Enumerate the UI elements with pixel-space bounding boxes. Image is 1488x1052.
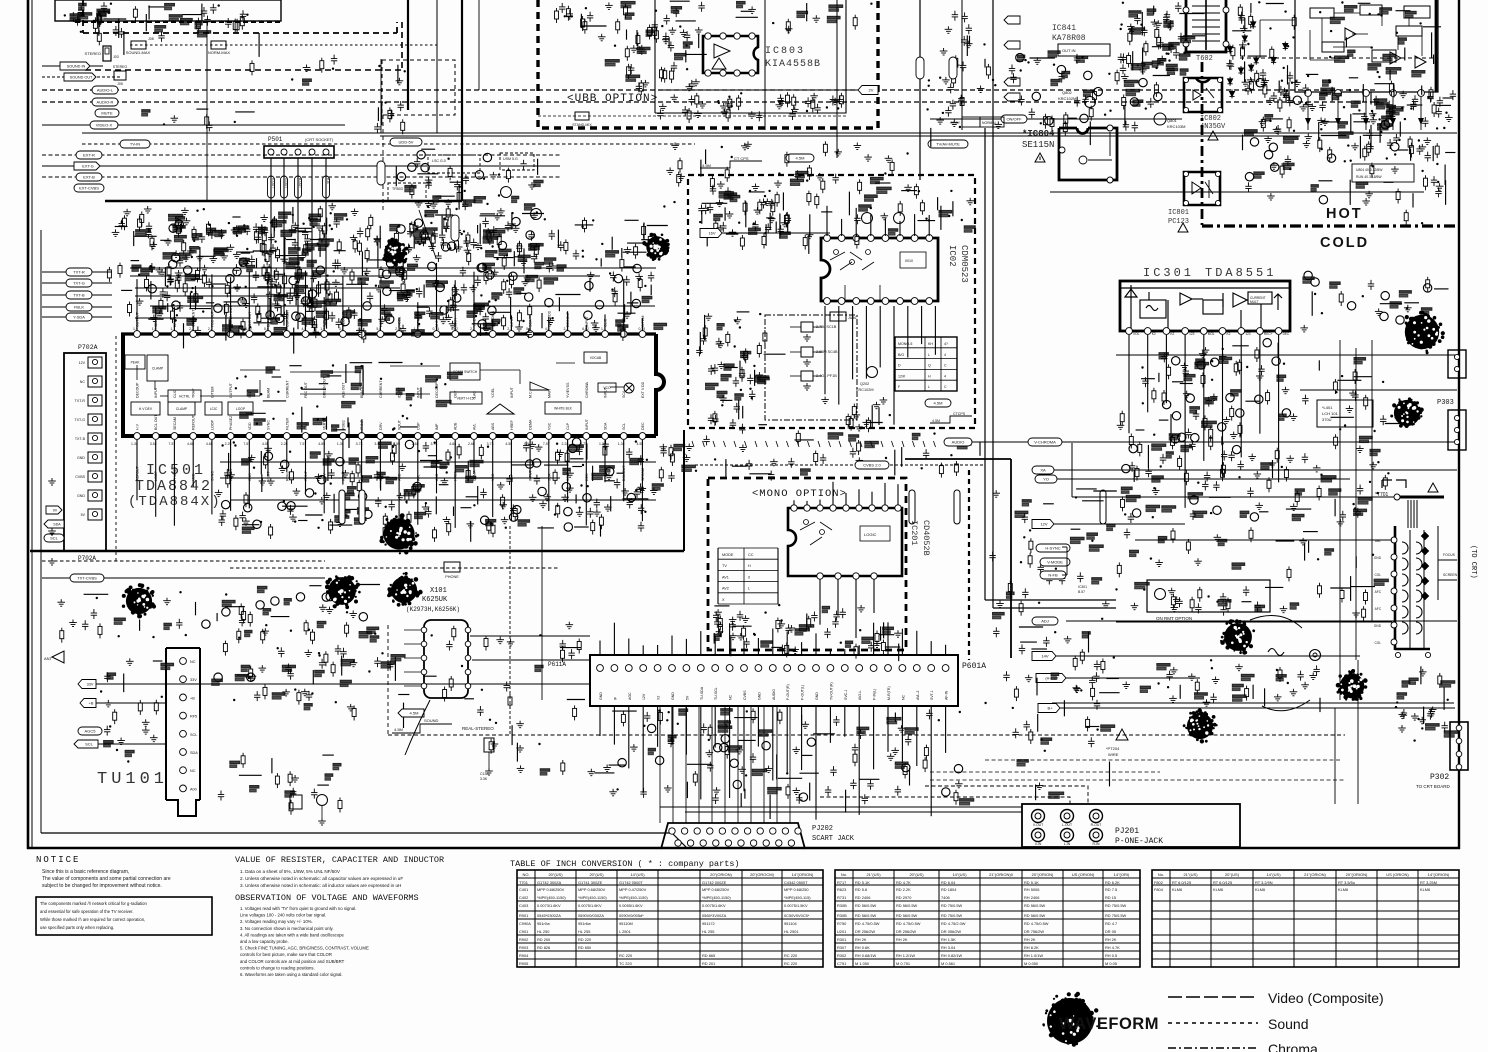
P302 pin 2: [1456, 738, 1462, 744]
svg-text:0: 0: [748, 575, 750, 579]
svg-text:DECOUP: DECOUP: [136, 382, 140, 398]
svg-text:RD 7.5: RD 7.5: [1105, 887, 1117, 892]
tag AUDIO-R: [92, 98, 118, 106]
svg-text:2V: 2V: [869, 88, 874, 93]
svg-text:RD 4.75/2.0W: RD 4.75/2.0W: [941, 921, 966, 926]
svg-text:R901: R901: [519, 913, 528, 918]
svg-text:14V: 14V: [1041, 654, 1048, 659]
svg-text:2. Voltages reading may vary: 2. Voltages reading may vary +/- 10%.: [240, 919, 313, 924]
svg-text:*L401: *L401: [1322, 405, 1333, 410]
svg-text:2.75L SC1B: 2.75L SC1B: [816, 325, 837, 329]
power block wires: [1260, 10, 1422, 60]
transistor Q204: [894, 213, 905, 224]
svg-text:RH 0.5: RH 0.5: [1105, 953, 1117, 958]
IC301 pin 7: [1238, 328, 1245, 335]
svg-text:CDM0523: CDM0523: [959, 245, 969, 283]
curved leader lines near blobs: [1250, 616, 1302, 629]
svg-text:DR 256/2W: DR 256/2W: [855, 929, 875, 934]
svg-text:1. Voltages read with 'TV' fr: 1. Voltages read with 'TV' from quiet to…: [240, 906, 356, 911]
electrolytic pills below IC501: [339, 490, 345, 524]
HOT COLD isolation barrier horizontal: [1202, 224, 1459, 227]
svg-text:AGC5: AGC5: [85, 729, 97, 734]
svg-text:SCL: SCL: [622, 423, 626, 430]
svg-text:G1742 000ZE: G1742 000ZE: [702, 880, 727, 885]
IC804 internals: [1079, 156, 1087, 164]
svg-text:MOL: MOL: [1208, 332, 1215, 336]
svg-text:0.0075/1.6KV: 0.0075/1.6KV: [578, 903, 602, 908]
warning triangle IC802: [1208, 131, 1218, 140]
IC501 bottom pin 16: [414, 433, 421, 440]
svg-text:US (ORION): US (ORION): [1386, 872, 1409, 877]
chroma box extra upper parts: [702, 190, 975, 249]
IC501 top pin 28: [639, 331, 646, 338]
IC501 bottom pin 27: [620, 433, 627, 440]
inner margin diagonal: [672, 833, 686, 847]
svg-text:Q: Q: [928, 364, 931, 368]
svg-text:14"(ORION): 14"(ORION): [1428, 872, 1450, 877]
long vertical wire x837: [836, 0, 838, 158]
parts right of mono option: [989, 480, 1116, 665]
audio bus L dashed wire: [42, 89, 1378, 91]
svg-text:DR 256/2W: DR 256/2W: [896, 929, 916, 934]
svg-text:C401: C401: [519, 887, 528, 892]
svg-text:US (ORION): US (ORION): [1072, 872, 1095, 877]
P702A pin 8 GND: [88, 490, 102, 501]
svg-text:12V: 12V: [642, 693, 646, 700]
P601A pin up stubs: [600, 622, 946, 655]
outer dashed option box: [83, 32, 397, 34]
svg-text:0010: 0010: [905, 259, 913, 263]
IC301 pin 9: [1275, 328, 1282, 335]
wire FBLK: [42, 306, 112, 308]
svg-text:(K2973H,K6256K): (K2973H,K6256K): [406, 606, 460, 613]
IC201 top pin stubs: [794, 482, 898, 505]
svg-text:AGC: AGC: [628, 692, 632, 700]
svg-text:*T701: *T701: [1375, 492, 1389, 498]
vertical wire from top-left box: [206, 22, 208, 200]
IC501 internal symbols: [235, 363, 462, 449]
parts between chroma and mono boxes: [659, 430, 980, 482]
svg-text:GND: GND: [1374, 624, 1382, 628]
ground symbol: [48, 528, 56, 535]
svg-text:20"(ORION): 20"(ORION): [1032, 872, 1054, 877]
svg-text:R750: R750: [837, 921, 847, 926]
warning triangle IC801: [1178, 223, 1188, 232]
IC301 pin 2: [1144, 328, 1151, 335]
svg-text:RD 6.04: RD 6.04: [941, 880, 956, 885]
svg-text:*MPE(450-1150): *MPE(450-1150): [702, 895, 731, 900]
svg-text:The value of components and so: The value of components and some partial…: [42, 876, 171, 882]
jack wire bundle dashed 1: [820, 797, 1070, 804]
SCART bottom pin 8: [763, 840, 769, 846]
svg-text:UDD-5V: UDD-5V: [399, 140, 414, 145]
IC501 top pin 22: [527, 331, 534, 338]
IC02 top pin 3: [853, 235, 860, 242]
svg-text:14"(US): 14"(US): [952, 872, 967, 877]
SCART bottom pin 10: [788, 840, 794, 846]
IC02 top pin 2: [838, 235, 845, 242]
svg-text:RUN 40.3.18/5W: RUN 40.3.18/5W: [1356, 175, 1382, 179]
parts above tuner: [57, 591, 195, 643]
svg-text:21"(ORION): 21"(ORION): [1304, 872, 1326, 877]
svg-text:XA: XA: [1040, 468, 1046, 473]
T602 secondary parts: [1226, 1, 1297, 103]
SCART top pin 8: [757, 828, 763, 834]
P302 pin 1: [1456, 725, 1462, 731]
tag MUTE: [95, 109, 119, 117]
dashed separator line: [115, 336, 117, 562]
svg-text:TU101: TU101: [97, 770, 168, 789]
vertical pill tags near R27: [916, 57, 924, 79]
tag 2V: [858, 86, 878, 95]
svg-text:SOUND-MAX: SOUND-MAX: [126, 50, 151, 55]
svg-text:K2: K2: [1227, 332, 1231, 336]
svg-text:KA78R08: KA78R08: [1052, 34, 1086, 43]
P601A pin 25: [942, 665, 949, 672]
IC02 top pin stubs: [827, 206, 929, 236]
svg-text:CLIC: CLIC: [173, 389, 177, 398]
4.5M step 2: [930, 416, 972, 423]
svg-text:IC841: IC841: [1052, 24, 1076, 33]
focus screen lines: [1438, 559, 1457, 561]
IC301 pin 6: [1219, 328, 1226, 335]
svg-text:B.57: B.57: [1078, 590, 1085, 594]
svg-text:RC 220: RC 220: [619, 953, 633, 958]
P702A pin 1 12V: [88, 357, 102, 368]
H pill link wire: [1062, 546, 1067, 548]
P601A pin 1: [597, 665, 604, 672]
svg-text:RD 4.75/0.5W: RD 4.75/0.5W: [896, 921, 921, 926]
svg-text:*MPE(450-115): *MPE(450-115): [784, 895, 811, 900]
svg-text:3. Unless otherwise noted in: 3. Unless otherwise noted in schematic: …: [240, 883, 401, 888]
flyback transformer T303 body: [1394, 526, 1397, 650]
svg-text:KIA4558B: KIA4558B: [765, 59, 821, 70]
svg-text:NOTICE: NOTICE: [36, 855, 80, 865]
svg-text:RT 3.5/5u: RT 3.5/5u: [1338, 880, 1355, 885]
4.5M sound step box: [700, 161, 762, 168]
IC803 bottom pin: [705, 70, 711, 76]
svg-text:C402: C402: [519, 895, 528, 900]
IC501 internal block PEAK: [125, 355, 145, 369]
IC501 bottom pin 10: [302, 433, 309, 440]
power block logic boxes: [1310, 8, 1334, 18]
tag SDA: [44, 520, 64, 528]
P302 connector: [1450, 722, 1468, 770]
svg-text:GND: GND: [77, 494, 85, 498]
inner left bus wire: [40, 230, 42, 833]
IC501 top pin 18: [452, 331, 459, 338]
page border bottom: [27, 847, 1460, 850]
svg-text:RD 15: RD 15: [1105, 895, 1116, 900]
svg-text:14"(US): 14"(US): [1266, 872, 1281, 877]
svg-text:RD 4.7: RD 4.7: [1105, 921, 1117, 926]
P702A pin 9 5V: [88, 509, 102, 520]
SCART top pin 6: [732, 828, 738, 834]
svg-text:CLAMP: CLAMP: [152, 367, 164, 371]
tag EXT-R: [76, 151, 102, 159]
svg-text:SVC-1: SVC-1: [844, 690, 848, 700]
svg-text:GND: GND: [757, 692, 761, 700]
tag 4.5M c: [398, 709, 424, 717]
ST-BY NORMAL box: [962, 117, 980, 127]
svg-text:AUDIO-R: AUDIO-R: [97, 100, 114, 105]
svg-text:L-OUT: L-OUT: [1062, 823, 1072, 827]
svg-text:20"(ORION): 20"(ORION): [1346, 872, 1368, 877]
svg-text:RD 200: RD 200: [537, 937, 551, 942]
IC841 surrounding parts: [1009, 51, 1170, 145]
IC501 top pin 17: [433, 331, 440, 338]
IC02 internals: [830, 250, 926, 301]
tag Y-SDA: [66, 313, 92, 321]
page border left outer: [27, 0, 30, 849]
truth table small: [895, 337, 957, 391]
svg-text:Sound: Sound: [1268, 1016, 1308, 1032]
long wire right: [1050, 191, 1424, 193]
svg-text:N-FB: N-FB: [1048, 573, 1058, 578]
nested dashed box right edge: [401, 22, 403, 70]
ground symbol: [48, 478, 56, 485]
svg-text:C990A: C990A: [519, 921, 531, 926]
svg-text:GND: GND: [1374, 556, 1382, 560]
IC501 top pin 1: [134, 331, 141, 338]
RCA jack V-OUT: [1032, 810, 1045, 823]
tag SCL tuner: [74, 740, 98, 748]
svg-text:R-OUT: R-OUT: [271, 178, 275, 188]
degauss coil: [1268, 649, 1284, 656]
IC02 top pin 8: [926, 235, 933, 242]
IF sub solid vertical: [380, 59, 382, 133]
svg-text:4.5M: 4.5M: [932, 419, 940, 423]
IF sub dashed box: [382, 60, 455, 115]
svg-text:SOUND: SOUND: [424, 718, 439, 723]
svg-text:AVL: AVL: [472, 423, 476, 430]
dashed wire y568: [230, 567, 560, 569]
wire TXT-G: [42, 282, 112, 284]
tag VIDEO: [90, 121, 118, 129]
svg-text:RH 0.68/1W: RH 0.68/1W: [855, 953, 877, 958]
svg-text:RD 4.75/0.5W: RD 4.75/0.5W: [855, 921, 880, 926]
svg-text:EXT-R: EXT-R: [83, 153, 95, 158]
svg-text:RD 865: RD 865: [702, 953, 715, 958]
component band above IC501 pins: [132, 262, 667, 353]
ink blob I: [1220, 619, 1255, 654]
svg-text:D: D: [898, 364, 901, 368]
IC501 top pin 15: [396, 331, 403, 338]
svg-text:NC: NC: [80, 380, 86, 384]
IC02 bottom pin 1: [824, 298, 831, 305]
IC501 bottom pin 18: [452, 433, 459, 440]
svg-text:CD4052B: CD4052B: [921, 520, 931, 556]
svg-text:ADB: ADB: [454, 422, 458, 430]
svg-text:Q801: Q801: [1167, 118, 1178, 123]
RCA jack V-IN: [1032, 829, 1045, 842]
svg-text:TC 220: TC 220: [619, 961, 633, 966]
parts between COLD barrier and IC301: [1300, 271, 1448, 332]
svg-text:HREF: HREF: [510, 419, 514, 430]
svg-text:M.C: M.C: [529, 391, 533, 398]
svg-text:5V: 5V: [685, 695, 689, 700]
svg-text:*MPE(450-1150): *MPE(450-1150): [578, 895, 607, 900]
power block dashed line: [1240, 57, 1438, 59]
svg-text:KRC102M: KRC102M: [856, 388, 874, 392]
power block pin 5: [1418, 90, 1425, 97]
svg-text:R301: R301: [837, 937, 846, 942]
svg-text:DR 05: DR 05: [1105, 929, 1116, 934]
svg-text:AV1: AV1: [722, 575, 729, 579]
svg-text:CURRENT: CURRENT: [285, 380, 289, 398]
wire ext-r: [42, 154, 560, 156]
svg-text:XOUT: XOUT: [398, 419, 402, 430]
svg-text:951r6w: 951r6w: [578, 921, 591, 926]
P702A pin 7 CVBS: [88, 471, 102, 482]
svg-text:SDA: SDA: [604, 422, 608, 430]
svg-text:J03: J03: [113, 55, 119, 59]
IC803 bottom pin: [734, 70, 740, 76]
tag SOUND-IN: [60, 62, 90, 70]
P601A pin 7: [683, 665, 690, 672]
component band well above IC501: [134, 211, 668, 276]
svg-text:Y-SDA: Y-SDA: [73, 315, 85, 320]
svg-text:SYNC: SYNC: [267, 420, 271, 430]
tag UDD-5V: [390, 138, 422, 146]
svg-text:G1741 300ZE: G1741 300ZE: [578, 880, 603, 885]
svg-text:0590V0/030ZA: 0590V0/030ZA: [578, 913, 604, 918]
svg-text:*MPE(450-1150): *MPE(450-1150): [619, 895, 648, 900]
UBB option bottom dashed wire: [538, 115, 846, 117]
IC02 bottom pin 2: [838, 298, 845, 305]
vertical pill tag AV-OUT: [377, 161, 385, 185]
speaker out parts: [1302, 358, 1408, 526]
IC841 regulator box: [1058, 44, 1110, 56]
tag SOUND-OUT: [64, 73, 96, 81]
IC804 error amp box: [1059, 128, 1117, 180]
svg-text:CT CPS: CT CPS: [734, 156, 749, 161]
svg-text:SCL: SCL: [85, 742, 94, 747]
svg-text:R307: R307: [837, 945, 846, 950]
svg-text:F804: F804: [1154, 887, 1164, 892]
tag AGC tuner: [78, 727, 102, 735]
bus bend to P601A: [985, 599, 1116, 601]
svg-text:20"(US): 20"(US): [548, 872, 563, 877]
NORM-MAX jumper box: [211, 41, 226, 49]
IC501 top pin stub wires: [137, 263, 642, 331]
svg-text:370U: 370U: [1322, 417, 1332, 422]
svg-text:MODE: MODE: [722, 553, 734, 557]
phono jack block PJ201: [1022, 804, 1240, 847]
svg-text:KLM6: KLM6: [1338, 887, 1348, 892]
svg-text:14"(ORION): 14"(ORION): [792, 872, 814, 877]
dash-dot control bus: [130, 44, 437, 46]
IC501 top pin 27: [620, 331, 627, 338]
IC501 internal block WHITE BLK: [545, 402, 581, 414]
wire TXT-CVBS: [42, 577, 325, 579]
svg-text:F802: F802: [1154, 880, 1163, 885]
IC501 top pin 10: [302, 331, 309, 338]
ink blob D: [387, 572, 423, 607]
SCART top pin 9: [770, 828, 776, 834]
tuner wire 33V: [78, 680, 96, 689]
svg-text:MPP 0.68/250V: MPP 0.68/250V: [578, 887, 606, 892]
UBB top cut parts: [555, 1, 873, 39]
jack wire bundle dashed 2: [925, 786, 1088, 804]
svg-text:EXT-CVBS: EXT-CVBS: [79, 186, 99, 191]
svg-text:VOCAB: VOCAB: [590, 356, 602, 360]
svg-text:TABLE OF INCH CONVERSION ( * :: TABLE OF INCH CONVERSION ( * : company p…: [510, 859, 740, 869]
svg-text:123: 123: [1189, 332, 1195, 336]
ink blob F: [325, 575, 361, 609]
IC501 bottom pin 25: [583, 433, 590, 440]
svg-text:NC: NC: [190, 769, 196, 773]
svg-text:GND: GND: [671, 692, 675, 700]
svg-text:C135: C135: [480, 772, 488, 776]
chroma box upper parts: [698, 179, 811, 253]
svg-text:T701: T701: [519, 880, 528, 885]
caution box: [36, 897, 212, 935]
SCART bottom pin 6: [738, 840, 744, 846]
IC501 internal block HCTRL: [168, 390, 201, 402]
svg-text:RD 2.2K: RD 2.2K: [896, 887, 911, 892]
SCART bottom pin 4: [713, 840, 719, 846]
svg-text:(CRT SOCKET): (CRT SOCKET): [305, 137, 334, 142]
svg-text:123: 123: [1245, 332, 1251, 336]
warning triangle T701: [1428, 483, 1438, 492]
svg-text:AUDIO: AUDIO: [772, 689, 776, 700]
svg-text:K2: K2: [1170, 332, 1174, 336]
svg-text:RD 75/0.5W: RD 75/0.5W: [1105, 903, 1127, 908]
IC803 top pin: [720, 33, 726, 39]
svg-text:INPUT: INPUT: [585, 418, 589, 430]
P601A pin 8: [697, 665, 704, 672]
svg-text:P-IN(L): P-IN(L): [873, 689, 877, 700]
IC501 bottom pin 7: [246, 433, 253, 440]
IC201 top pin 1: [791, 505, 797, 511]
svg-text:YO: YO: [1043, 477, 1049, 482]
svg-text:M 0.561: M 0.561: [941, 961, 955, 966]
parts between P601A and SCART: [603, 708, 973, 819]
svg-text:X101: X101: [430, 587, 447, 595]
FBT pin 7: [1391, 639, 1397, 645]
svg-text:REFOUT: REFOUT: [192, 414, 196, 430]
tag 4.5M b: [925, 399, 951, 407]
svg-text:TV/AV-MUTE: TV/AV-MUTE: [936, 142, 960, 147]
IC301 pin 5: [1200, 328, 1207, 335]
long vertical wire x765: [764, 0, 766, 130]
svg-text:DEC: DEC: [641, 422, 645, 430]
UBB bias wire: [660, 89, 862, 91]
svg-text:SCREEN: SCREEN: [1443, 573, 1458, 577]
svg-text:20"(US): 20"(US): [909, 872, 924, 877]
T701 drive transformer: [1382, 480, 1406, 488]
svg-text:AUDIO-L: AUDIO-L: [97, 88, 114, 93]
svg-text:and COLOR controls are at mid: and COLOR controls are at mid position a…: [240, 959, 345, 964]
IC501 bottom pin 15: [396, 433, 403, 440]
dash verticals centre: [509, 526, 511, 735]
long vertical main bus 2: [961, 0, 963, 130]
parts right of top-left box: [250, 55, 337, 86]
IC501 top pin 3: [171, 331, 178, 338]
FBT coil arcs: [1402, 542, 1422, 634]
P601A pin 17: [827, 665, 834, 672]
transistor Q203: [862, 213, 873, 224]
waveform title blob: [1042, 992, 1098, 1047]
tuner pin column: [180, 658, 187, 665]
svg-text:*IC804: *IC804: [1022, 129, 1055, 139]
svg-text:6. Waveforms are taken using: 6. Waveforms are taken using a standard …: [240, 972, 343, 977]
svg-text:R904: R904: [519, 953, 529, 958]
jack wire 3: [660, 806, 1022, 808]
right edge parts: [1412, 95, 1453, 207]
P501 pin 1: [268, 149, 274, 155]
